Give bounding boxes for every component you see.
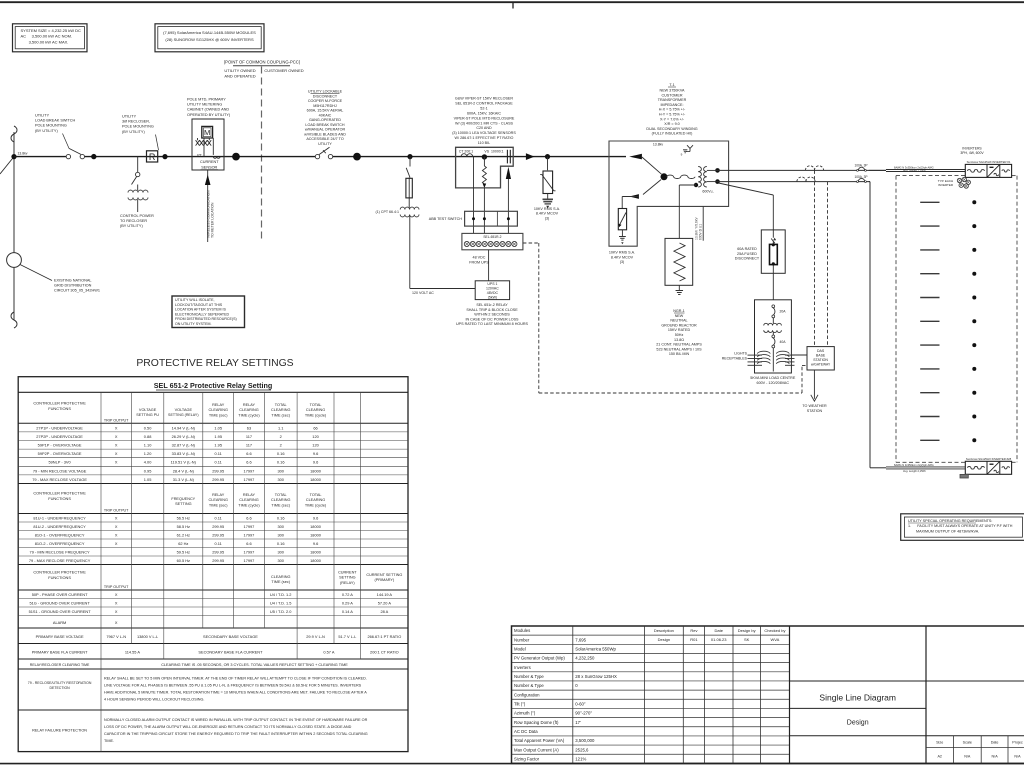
- svg-text:X: X: [115, 443, 118, 448]
- svg-text:w/VISIBLE BLADES AND: w/VISIBLE BLADES AND: [304, 132, 346, 136]
- svg-text:SunGrow SG125HX INVERTER #28: SunGrow SG125HX INVERTER #28: [966, 457, 1012, 461]
- svg-text:BASE: BASE: [816, 353, 826, 357]
- svg-text:79 - MAX RECLOSE FREQUENCY: 79 - MAX RECLOSE FREQUENCY: [29, 558, 91, 563]
- svg-text:POLE MOUNTING: POLE MOUNTING: [122, 125, 154, 129]
- svg-text:TOTAL: TOTAL: [275, 403, 287, 407]
- svg-text:CABINET (OWNED AND: CABINET (OWNED AND: [187, 108, 229, 112]
- svg-text:29.9 V L-N: 29.9 V L-N: [306, 634, 325, 639]
- svg-text:M5H117RDHJ: M5H117RDHJ: [313, 104, 337, 108]
- svg-text:HAVE ADDITIONAL 5 MINUTE TIMER: HAVE ADDITIONAL 5 MINUTE TIMER. TOTAL RE…: [104, 691, 367, 695]
- svg-text:299.95: 299.95: [212, 524, 224, 529]
- node: [162, 154, 167, 159]
- CT secondary wire: [473, 157, 475, 234]
- svg-text:CLEARING: CLEARING: [239, 498, 258, 502]
- svg-text:10KV RMS S.A.: 10KV RMS S.A.: [609, 251, 635, 255]
- svg-text:Date: Date: [714, 628, 723, 633]
- svg-text:Azimuth (°): Azimuth (°): [514, 711, 536, 716]
- svg-text:G&W VIPER-ST 15KV RECLOSER: G&W VIPER-ST 15KV RECLOSER: [455, 97, 513, 101]
- arrow into transformer primary: [629, 154, 642, 160]
- svg-text:AND OPERATED: AND OPERATED: [224, 74, 255, 79]
- svg-text:(PRIMARY): (PRIMARY): [374, 578, 394, 582]
- svg-text:300: 300: [277, 549, 284, 554]
- svg-text:300: 300: [277, 558, 284, 563]
- svg-text:300: 300: [277, 532, 284, 537]
- svg-text:Rev: Rev: [690, 628, 697, 633]
- current sensor humps: [213, 157, 216, 159]
- svg-text:TIME (cycle): TIME (cycle): [238, 413, 260, 417]
- svg-text:4.00: 4.00: [144, 460, 152, 465]
- svg-text:200:1 CT RATIO: 200:1 CT RATIO: [370, 650, 399, 655]
- svg-text:144.19 A: 144.19 A: [377, 592, 393, 597]
- svg-text:114.55 A: 114.55 A: [125, 650, 140, 655]
- svg-text:GRID DISTRIBUTION: GRID DISTRIBUTION: [54, 284, 92, 288]
- svg-text:17': 17': [575, 720, 581, 725]
- transformer T1 enclosure: [609, 141, 729, 246]
- svg-text:SHALL TRIP & BLOCK CLOSE: SHALL TRIP & BLOCK CLOSE: [466, 308, 518, 312]
- surge arrester SA2 inside transformer: [618, 209, 626, 230]
- note box: utility special operating requirements: [901, 514, 1024, 541]
- svg-text:Design: Design: [658, 637, 670, 642]
- trip wire with up arrow: [507, 178, 509, 234]
- svg-text:H-Y = 5.75% +/-: H-Y = 5.75% +/-: [659, 113, 686, 117]
- svg-text:VS 10000:1: VS 10000:1: [484, 149, 503, 153]
- svg-text:17997: 17997: [244, 549, 255, 554]
- svg-text:25A FUSED: 25A FUSED: [737, 252, 757, 256]
- svg-text:NGR-1: NGR-1: [673, 309, 684, 313]
- svg-text:9.6: 9.6: [313, 515, 318, 520]
- svg-text:AC DC Data: AC DC Data: [514, 729, 538, 734]
- svg-text:6.6: 6.6: [246, 515, 251, 520]
- svg-text:79 - RECLOSE/UTILITY RESTORATI: 79 - RECLOSE/UTILITY RESTORATION: [28, 681, 92, 685]
- svg-text:CONTROLLER PROTECTIVE: CONTROLLER PROTECTIVE: [33, 570, 86, 575]
- wye ground symbol: [687, 145, 693, 151]
- svg-text:ALARM: ALARM: [53, 620, 66, 625]
- svg-text:Modules: Modules: [514, 628, 530, 633]
- svg-text:X: X: [115, 434, 118, 439]
- svg-text:LOAD BREAK SWITCH: LOAD BREAK SWITCH: [35, 119, 76, 123]
- svg-text:117: 117: [246, 443, 252, 448]
- svg-text:RELAY SHALL BE SET TO 5 MIN OP: RELAY SHALL BE SET TO 5 MIN OPEN INTERVA…: [104, 677, 367, 681]
- svg-text:X: X: [115, 532, 118, 537]
- svg-text:UTILITY: UTILITY: [122, 115, 137, 119]
- svg-text:DISCONNECT: DISCONNECT: [313, 94, 338, 98]
- svg-text:TIME (cycle): TIME (cycle): [305, 413, 327, 417]
- svg-text:PV Generator Output (Wp): PV Generator Output (Wp): [514, 656, 565, 661]
- svg-text:DAS: DAS: [817, 349, 825, 353]
- svg-text:79 - MIN RECLOSE FREQUENCY: 79 - MIN RECLOSE FREQUENCY: [30, 549, 91, 554]
- node: [545, 154, 550, 159]
- string 5 wire and node: [920, 297, 939, 299]
- svg-text:81O-1 - OVERFREQUENCY: 81O-1 - OVERFREQUENCY: [35, 532, 85, 537]
- svg-text:TRANSFORMER: TRANSFORMER: [658, 98, 687, 102]
- meter M: [202, 126, 213, 138]
- wire: run 1 double conductor to inverter 1: [869, 169, 886, 171]
- svg-text:14.94 V (L-N): 14.94 V (L-N): [172, 425, 196, 430]
- svg-text:27P1P - UNDERVOLTAGE: 27P1P - UNDERVOLTAGE: [36, 425, 83, 430]
- svg-text:120VAC: 120VAC: [486, 287, 499, 291]
- svg-text:SEL 651-2 Protective Relay Set: SEL 651-2 Protective Relay Setting: [154, 381, 273, 390]
- svg-text:8AWG N 3x350kcm 2x(2)/ph AWG: 8AWG N 3x350kcm 2x(2)/ph AWG: [894, 463, 934, 467]
- svg-text:X: X: [115, 609, 118, 614]
- svg-text:FUNCTIONS: FUNCTIONS: [48, 406, 71, 411]
- svg-text:2: 2: [280, 443, 282, 448]
- svg-text:59.5 Hz: 59.5 Hz: [177, 549, 190, 554]
- svg-text:81O-2 - OVERFREQUENCY: 81O-2 - OVERFREQUENCY: [35, 541, 85, 546]
- svg-text:59P1P - OVERVOLTAGE: 59P1P - OVERVOLTAGE: [38, 443, 82, 448]
- svg-text:FREQUENCY: FREQUENCY: [171, 497, 195, 501]
- svg-text:13.8Ω: 13.8Ω: [674, 338, 684, 342]
- breaker 40A: [772, 335, 775, 338]
- node: [91, 154, 96, 159]
- svg-text:MAXIMUM OUTPUT OF 4873kW/kVA.: MAXIMUM OUTPUT OF 4873kW/kVA.: [916, 529, 979, 533]
- wire: 48VDC from UPS: [488, 250, 490, 281]
- string 2 wire and node: [920, 225, 939, 227]
- svg-text:4 HOUR SENSING PERIOD WILL LOC: 4 HOUR SENSING PERIOD WILL LOCKOUT RECLO…: [104, 698, 204, 702]
- svg-text:63: 63: [247, 425, 251, 430]
- svg-text:GANG-OPERATED: GANG-OPERATED: [309, 118, 341, 122]
- svg-text:0.29 A: 0.29 A: [342, 600, 353, 605]
- svg-text:Size: Size: [936, 741, 943, 745]
- svg-text:NEW: NEW: [675, 314, 684, 318]
- svg-text:R01: R01: [690, 637, 698, 642]
- CT (dashed) on run 1: [805, 166, 814, 171]
- svg-text:121%: 121%: [575, 756, 586, 761]
- svg-text:T-1: T-1: [669, 83, 674, 87]
- svg-text:3PH, 4W, 600V: 3PH, 4W, 600V: [960, 151, 984, 155]
- svg-text:Row Spacing Dome (ft): Row Spacing Dome (ft): [514, 720, 559, 725]
- dashed signal wire from SEL to DAS: [523, 242, 539, 244]
- CT (dashed) on run 2: [797, 177, 806, 182]
- svg-text:32.87 V (L-N): 32.87 V (L-N): [172, 443, 196, 448]
- PV array field dashed boundary: [896, 175, 965, 177]
- node at PCC: [232, 153, 240, 161]
- svg-text:0.72 A: 0.72 A: [342, 592, 353, 597]
- svg-text:SYSTEM SIZE = 4,232.25 kW DC: SYSTEM SIZE = 4,232.25 kW DC: [21, 28, 81, 33]
- svg-text:3Ø RECLOSER,: 3Ø RECLOSER,: [122, 120, 150, 124]
- svg-text:1.1: 1.1: [278, 425, 283, 430]
- svg-text:CAPACITOR IN THE TRIPPING CIRC: CAPACITOR IN THE TRIPPING CIRCUIT STORE …: [104, 732, 368, 736]
- branch circuit coils: [757, 351, 770, 353]
- svg-text:5KVA MINI LOAD CENTRE: 5KVA MINI LOAD CENTRE: [750, 376, 796, 380]
- svg-text:13.8kv: 13.8kv: [18, 152, 28, 156]
- table grid lines: [18, 422, 408, 424]
- metering cabinet enclosure: [192, 119, 224, 170]
- CT coils (metering): [196, 140, 212, 145]
- svg-text:18000: 18000: [310, 477, 322, 482]
- svg-text:0.16: 0.16: [277, 460, 285, 465]
- dashed CT signal wires to DAS: [814, 170, 816, 346]
- svg-text:LOSS OF DC POWER, THE ALARM OU: LOSS OF DC POWER, THE ALARM OUTPUT WILL …: [104, 725, 352, 729]
- svg-text:ELECTRONICALLY SEPERATED: ELECTRONICALLY SEPERATED: [175, 312, 230, 316]
- svg-text:(BY UTILITY): (BY UTILITY): [120, 224, 143, 228]
- svg-text:9.6: 9.6: [313, 451, 318, 456]
- svg-text:Scale: Scale: [963, 741, 972, 745]
- svg-text:01.06.23: 01.06.23: [711, 637, 727, 642]
- svg-text:IN CASE OF DC POWER LOSS: IN CASE OF DC POWER LOSS: [465, 317, 519, 321]
- svg-text:1.95: 1.95: [214, 443, 222, 448]
- svg-text:X-Y = 7.0% +/-: X-Y = 7.0% +/-: [660, 117, 685, 121]
- svg-text:CONTROLLER PROTECTIVE: CONTROLLER PROTECTIVE: [33, 491, 86, 496]
- svg-text:X: X: [115, 541, 118, 546]
- note box: utility will isolate: [172, 296, 245, 328]
- svg-text:Avg. Length 2,150ft: Avg. Length 2,150ft: [903, 469, 926, 473]
- svg-text:3,500.00 kW AC MAX.: 3,500.00 kW AC MAX.: [29, 39, 69, 44]
- svg-text:59NLP - 3V0: 59NLP - 3V0: [48, 460, 71, 465]
- wire: 120 volt AC to UPS: [409, 215, 411, 289]
- svg-text:(3) 10000:1 LEA VOLTAGE SENSOR: (3) 10000:1 LEA VOLTAGE SENSORS: [452, 131, 516, 135]
- control power transformer: [128, 190, 148, 192]
- svg-text:79 - MIN RECLOSE VOLTAGE: 79 - MIN RECLOSE VOLTAGE: [33, 468, 87, 473]
- svg-text:17997: 17997: [244, 468, 255, 473]
- svg-text:4,232,250: 4,232,250: [575, 656, 595, 661]
- svg-text:17997: 17997: [244, 524, 255, 529]
- svg-text:UTILITY: UTILITY: [318, 142, 332, 146]
- arrow to weather station: [813, 370, 815, 399]
- svg-text:TIME (sec): TIME (sec): [209, 503, 228, 507]
- svg-text:TO WEATHER: TO WEATHER: [802, 404, 827, 408]
- wire: run 2 down and across to inverter 28: [869, 181, 870, 183]
- lockable disconnect switch: [315, 154, 319, 158]
- svg-text:UTILITY SPECIAL OPERATING REQU: UTILITY SPECIAL OPERATING REQUIREMENTS:: [908, 519, 992, 523]
- svg-text:13800 V L-L: 13800 V L-L: [137, 634, 159, 639]
- svg-text:NORMALLY CLOSED ALARM OUTPUT C: NORMALLY CLOSED ALARM OUTPUT CONTACT IS …: [104, 718, 368, 722]
- svg-text:X: X: [115, 592, 118, 597]
- breaker 20A: [772, 305, 775, 308]
- svg-text:LINE VOLTAGE FOR ALL PHASES IS: LINE VOLTAGE FOR ALL PHASES IS BETWEEN .…: [104, 684, 362, 688]
- svg-text:(7,695) SolarAmerica S4AU-144B: (7,695) SolarAmerica S4AU-144B-550W MODU…: [163, 30, 256, 35]
- load break switch S1 (pole mounted): [66, 154, 70, 158]
- svg-text:Design: Design: [847, 720, 869, 727]
- svg-text:UPS RATED TO LAST MINIMUM 8 HO: UPS RATED TO LAST MINIMUM 8 HOURS: [456, 322, 529, 326]
- svg-text:1.95: 1.95: [214, 434, 222, 439]
- svg-text:PROTECTIVE RELAY SETTINGS: PROTECTIVE RELAY SETTINGS: [136, 358, 293, 369]
- svg-text:Projec: Projec: [1012, 741, 1023, 745]
- svg-text:POLE MTD, PRIMARY: POLE MTD, PRIMARY: [187, 98, 226, 102]
- svg-text:X: X: [115, 515, 118, 520]
- svg-text:1.05: 1.05: [144, 477, 152, 482]
- svg-text:UPS 1: UPS 1: [487, 282, 497, 286]
- svg-text:UTILITY LOCKABLE: UTILITY LOCKABLE: [308, 90, 343, 94]
- svg-text:299.95: 299.95: [212, 532, 224, 537]
- svg-text:100A, 3P: 100A, 3P: [854, 163, 867, 167]
- secondary winding: [704, 167, 707, 188]
- svg-text:61.2 Hz: 61.2 Hz: [177, 532, 190, 537]
- svg-text:Date: Date: [991, 741, 999, 745]
- svg-text:SECONDARY BASE FLA CURRENT: SECONDARY BASE FLA CURRENT: [198, 650, 263, 655]
- svg-text:UTILITY WILL ISOLATE,: UTILITY WILL ISOLATE,: [175, 298, 214, 302]
- svg-text:CIRCUIT 305_05_342HW1: CIRCUIT 305_05_342HW1: [54, 289, 100, 293]
- svg-text:(FULLY INSULATED H0): (FULLY INSULATED H0): [652, 132, 693, 136]
- svg-text:AC 3,500.00 kW AC NOM.: AC 3,500.00 kW AC NOM.: [21, 34, 73, 39]
- svg-text:(RELAY): (RELAY): [340, 581, 355, 585]
- svg-text:TOTAL: TOTAL: [310, 493, 322, 497]
- svg-text:59P2P - OVERVOLTAGE: 59P2P - OVERVOLTAGE: [38, 451, 82, 456]
- svg-text:Description: Description: [654, 628, 674, 633]
- recloser 52-1 enclosure: [456, 147, 514, 188]
- svg-text:C20 AND: C20 AND: [476, 126, 492, 130]
- svg-text:UTILITY OWNED: UTILITY OWNED: [224, 68, 255, 73]
- SEL-651R-2 terminal strip: [462, 233, 523, 249]
- svg-text:Number & Type: Number & Type: [514, 674, 544, 679]
- svg-text:1. FACILITY MUST ALWAYS O: 1. FACILITY MUST ALWAYS OPERATE AT UNITY…: [908, 524, 1013, 528]
- svg-text:7,695: 7,695: [575, 637, 586, 642]
- svg-text:0.16: 0.16: [277, 541, 285, 546]
- svg-text:600V D U1: 600V D U1: [699, 224, 703, 240]
- svg-text:TIME.: TIME.: [104, 739, 114, 743]
- svg-text:FROM DISTRIBUTED RESOURCE(S): FROM DISTRIBUTED RESOURCE(S): [175, 317, 237, 321]
- wire stub from node down-left: [0, 157, 14, 174]
- svg-text:2: 2: [280, 434, 282, 439]
- svg-text:CLEARING: CLEARING: [239, 408, 258, 412]
- svg-text:CURRENT: CURRENT: [338, 571, 357, 575]
- svg-text:STATION: STATION: [807, 409, 823, 413]
- svg-text:300: 300: [277, 524, 284, 529]
- svg-text:TOTAL: TOTAL: [275, 493, 287, 497]
- svg-text:120: 120: [312, 443, 319, 448]
- svg-text:21 CONT. NEUTRAL AMPS: 21 CONT. NEUTRAL AMPS: [656, 343, 702, 347]
- secondary terminal nodes: [715, 168, 720, 173]
- svg-text:150 BIL MIN: 150 BIL MIN: [669, 352, 690, 356]
- PCC boundary dashed line: [261, 67, 263, 241]
- svg-text:1.10: 1.10: [144, 443, 152, 448]
- svg-text:17997: 17997: [244, 477, 255, 482]
- svg-text:DUAL SECONDARY WINDING: DUAL SECONDARY WINDING: [646, 127, 697, 131]
- svg-text:ABB TEST SWITCH: ABB TEST SWITCH: [429, 217, 463, 221]
- svg-text:LOCATION AFTER SYSTEM IS: LOCATION AFTER SYSTEM IS: [175, 308, 226, 312]
- svg-text:1.05: 1.05: [214, 425, 222, 430]
- svg-text:0.95: 0.95: [144, 468, 152, 473]
- svg-text:Checked by: Checked by: [764, 628, 785, 633]
- svg-text:SETTING: SETTING: [175, 502, 192, 506]
- existing grid circle marker: [7, 253, 22, 268]
- svg-text:(3): (3): [620, 260, 625, 264]
- svg-text:60A RATED: 60A RATED: [737, 247, 757, 251]
- svg-text:48 VDC: 48 VDC: [473, 255, 486, 259]
- svg-text:TIME (cycle): TIME (cycle): [238, 503, 260, 507]
- svg-text:40A: 40A: [780, 340, 787, 344]
- svg-text:51S1 - GROUND OVER CURRENT: 51S1 - GROUND OVER CURRENT: [29, 609, 92, 614]
- svg-text:N/A: N/A: [964, 755, 971, 759]
- svg-text:CLEARING: CLEARING: [208, 498, 227, 502]
- svg-text:300: 300: [277, 477, 284, 482]
- svg-text:N/A: N/A: [992, 755, 999, 759]
- svg-text:523 NEUTRAL AMPS / 10S: 523 NEUTRAL AMPS / 10S: [656, 347, 702, 351]
- arrow to internal surge arrester: [643, 180, 661, 195]
- svg-text:TRIP OUTPUT: TRIP OUTPUT: [104, 509, 129, 513]
- ABB test switch: [465, 211, 518, 226]
- svg-text:w/GATEWAY: w/GATEWAY: [811, 362, 831, 366]
- svg-text:FUNCTIONS: FUNCTIONS: [48, 496, 71, 501]
- PT label and wire: [203, 138, 205, 157]
- svg-text:DISCONNECT: DISCONNECT: [735, 257, 760, 261]
- svg-text:300: 300: [277, 468, 284, 473]
- svg-text:28 A: 28 A: [380, 609, 388, 614]
- svg-text:266.67:1 PT RATIO: 266.67:1 PT RATIO: [367, 634, 401, 639]
- fuse 25A: [770, 244, 778, 264]
- utility feeder line 13.8kV: [13, 132, 15, 320]
- svg-text:48VDC: 48VDC: [487, 291, 499, 295]
- wireless communication arrow to meter: [207, 170, 209, 242]
- svg-text:WITHIN 2 SECONDS: WITHIN 2 SECONDS: [474, 313, 510, 317]
- svg-text:INVERTER: INVERTER: [938, 183, 954, 187]
- svg-text:RELAY FAILURE PROTECTION: RELAY FAILURE PROTECTION: [32, 729, 87, 733]
- svg-text:ACCESSIBLE 24/7 TO: ACCESSIBLE 24/7 TO: [306, 137, 344, 141]
- fused disconnect 60A box: [761, 230, 785, 273]
- svg-text:56.5 Hz: 56.5 Hz: [177, 515, 190, 520]
- svg-text:13.8kv: 13.8kv: [653, 143, 664, 147]
- svg-text:X: X: [115, 460, 118, 465]
- svg-text:NEW 3750KVA: NEW 3750KVA: [660, 89, 685, 93]
- svg-text:18000: 18000: [310, 558, 322, 563]
- svg-text:8.4KV MCOV: 8.4KV MCOV: [536, 212, 559, 216]
- string 7 wire and node: [920, 344, 939, 346]
- svg-text:TIME (sec): TIME (sec): [209, 413, 228, 417]
- svg-text:0.14 A: 0.14 A: [342, 609, 353, 614]
- svg-text:0.11: 0.11: [215, 515, 222, 520]
- power flow arrow on bus: [526, 153, 535, 160]
- svg-text:NEUTRAL: NEUTRAL: [670, 319, 687, 323]
- svg-text:299.95: 299.95: [212, 549, 224, 554]
- svg-text:IMPEDANCE:: IMPEDANCE:: [661, 103, 684, 107]
- CPT transformer 66.4:1: [400, 207, 419, 209]
- string 3 wire and node: [920, 249, 939, 251]
- svg-text:8.4KV MCOV: 8.4KV MCOV: [611, 255, 634, 259]
- svg-text:VOLTAGE: VOLTAGE: [139, 408, 157, 412]
- svg-text:OPERATED BY UTILITY): OPERATED BY UTILITY): [187, 113, 231, 117]
- svg-text:DETECTION: DETECTION: [49, 686, 70, 690]
- svg-text:CLEARING: CLEARING: [271, 498, 290, 502]
- svg-text:COOPER M-FORCE: COOPER M-FORCE: [308, 99, 343, 103]
- svg-text:(BY UTILITY): (BY UTILITY): [35, 129, 58, 133]
- svg-text:18000: 18000: [310, 549, 322, 554]
- svg-text:FUNCTIONS: FUNCTIONS: [48, 575, 71, 580]
- table outer border: [18, 377, 408, 752]
- svg-text:6.6: 6.6: [246, 451, 251, 456]
- sheet top border: [0, 1, 1024, 3]
- svg-text:299.95: 299.95: [212, 558, 224, 563]
- svg-text:28 x SunGrow 125HX: 28 x SunGrow 125HX: [575, 674, 617, 679]
- svg-text:RELAY: RELAY: [212, 493, 225, 497]
- string 1 wire and node: [920, 201, 939, 203]
- svg-text:9.6: 9.6: [313, 460, 318, 465]
- svg-text:TRIP OUTPUT: TRIP OUTPUT: [104, 418, 129, 422]
- wire: aux secondary diagonal to fused disconnect: [719, 183, 774, 195]
- svg-text:STATION: STATION: [813, 358, 828, 362]
- svg-text:15KV RATED: 15KV RATED: [668, 328, 691, 332]
- svg-text:PRIMARY BASE VOLTAGE: PRIMARY BASE VOLTAGE: [36, 634, 84, 639]
- svg-text:51.7 V L-L: 51.7 V L-L: [338, 634, 357, 639]
- primary winding: [667, 175, 696, 178]
- svg-text:31.3 V (L-N): 31.3 V (L-N): [173, 477, 195, 482]
- svg-text:62 Hz: 62 Hz: [178, 541, 188, 546]
- surge arrester SA1: [547, 157, 549, 171]
- svg-text:600A, 15.5KV AERIAL: 600A, 15.5KV AERIAL: [307, 109, 344, 113]
- svg-text:28.4 V (L-N): 28.4 V (L-N): [173, 468, 195, 473]
- svg-text:0.57 A: 0.57 A: [323, 650, 334, 655]
- svg-text:FROM UPS: FROM UPS: [469, 260, 489, 264]
- svg-text:(28) SUNGROW SG125HX @ 600V IN: (28) SUNGROW SG125HX @ 600V INVERTERS: [165, 37, 254, 42]
- disconnect switch on control branch: [136, 172, 140, 176]
- load centre transformer: [764, 323, 782, 325]
- svg-text:LIGHTS: LIGHTS: [734, 352, 747, 356]
- svg-text:ON UTILITY SYSTEM.: ON UTILITY SYSTEM.: [175, 322, 211, 326]
- recloser R box: [147, 151, 158, 162]
- svg-text:20A: 20A: [780, 310, 787, 314]
- svg-text:TOTAL: TOTAL: [310, 403, 322, 407]
- svg-text:SENSOR: SENSOR: [201, 165, 217, 169]
- svg-text:299.95: 299.95: [212, 468, 224, 473]
- svg-text:SETTING (RELAY): SETTING (RELAY): [168, 413, 198, 417]
